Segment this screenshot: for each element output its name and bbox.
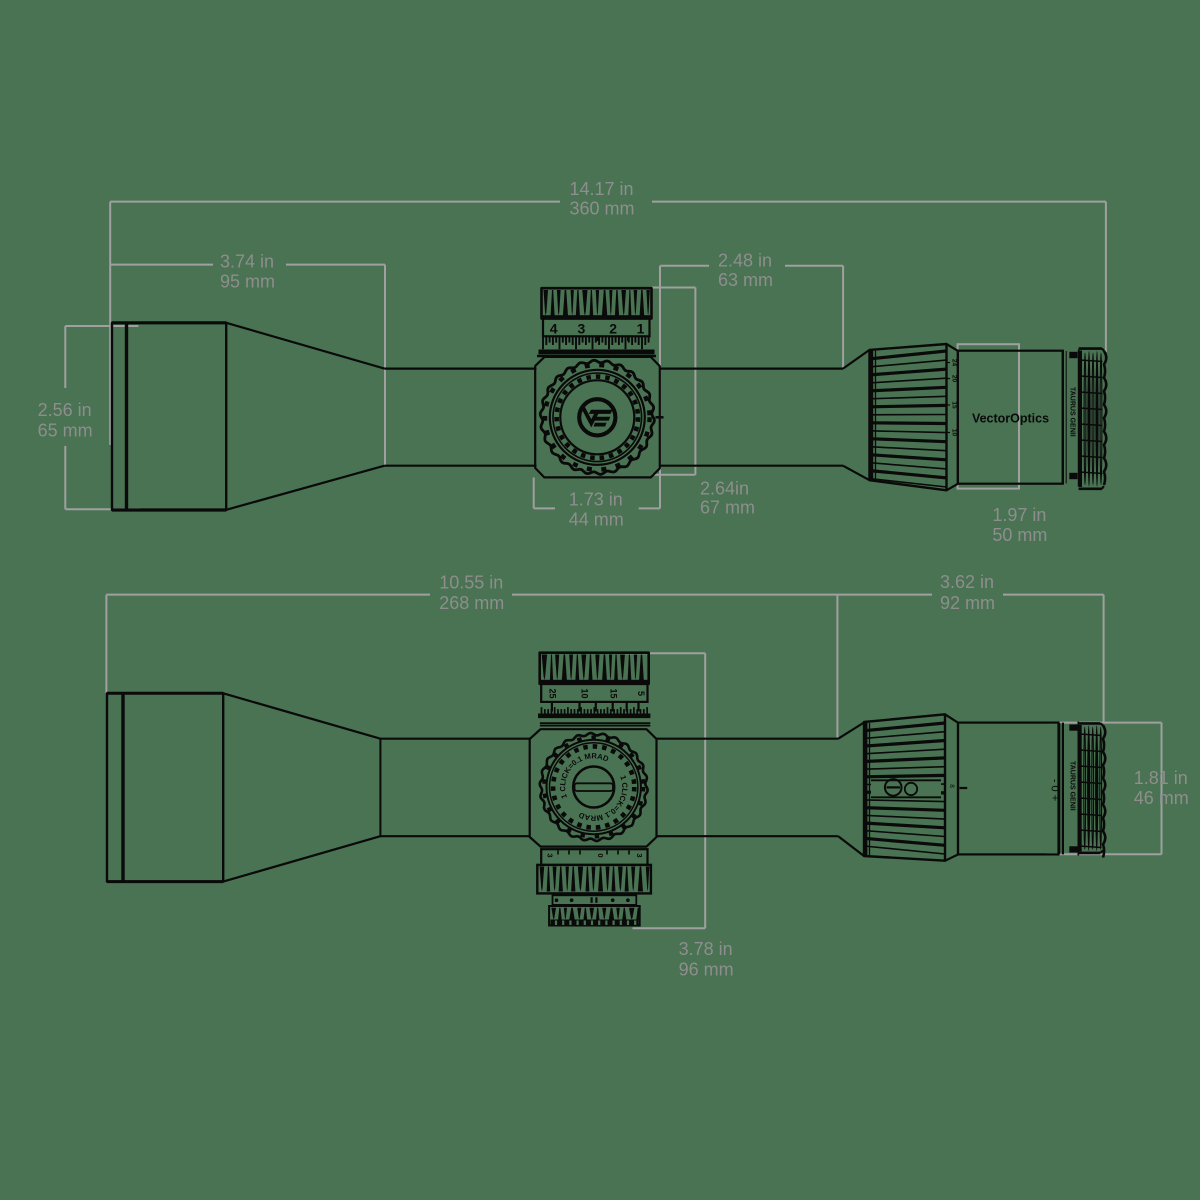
svg-text:TAURUS GENII: TAURUS GENII xyxy=(1069,387,1076,437)
svg-text:2.48 in: 2.48 in xyxy=(718,251,772,271)
svg-text:67 mm: 67 mm xyxy=(700,498,755,518)
svg-text:TAURUS GENII: TAURUS GENII xyxy=(1069,761,1076,811)
svg-text:10: 10 xyxy=(580,688,590,698)
svg-text:92 mm: 92 mm xyxy=(940,593,995,613)
svg-text:15: 15 xyxy=(951,401,958,409)
svg-text:3: 3 xyxy=(635,853,644,857)
svg-text:10: 10 xyxy=(951,429,958,437)
svg-text:2: 2 xyxy=(609,321,617,337)
svg-text:8: 8 xyxy=(948,784,955,788)
svg-text:1.97 in: 1.97 in xyxy=(992,505,1046,525)
svg-text:2.56 in: 2.56 in xyxy=(38,400,92,420)
svg-text:1: 1 xyxy=(637,321,645,337)
svg-text:3.74 in: 3.74 in xyxy=(220,252,274,272)
svg-text:0: 0 xyxy=(596,853,605,857)
svg-text:25: 25 xyxy=(548,688,558,698)
svg-text:1.73 in: 1.73 in xyxy=(569,490,623,510)
svg-text:3: 3 xyxy=(546,853,555,857)
svg-text:268 mm: 268 mm xyxy=(439,593,504,613)
svg-text:10.55 in: 10.55 in xyxy=(439,573,503,593)
svg-text:50 mm: 50 mm xyxy=(992,525,1047,545)
svg-text:46 mm: 46 mm xyxy=(1134,788,1189,808)
svg-text:4: 4 xyxy=(550,321,558,337)
svg-text:360 mm: 360 mm xyxy=(570,198,635,218)
svg-text:3: 3 xyxy=(578,321,586,337)
svg-text:95 mm: 95 mm xyxy=(220,271,275,291)
svg-text:3.62 in: 3.62 in xyxy=(940,572,994,592)
svg-text:14.17 in: 14.17 in xyxy=(570,179,634,199)
svg-text:5: 5 xyxy=(636,691,646,696)
svg-text:2.64in: 2.64in xyxy=(700,479,749,499)
svg-text:- 0 +: - 0 + xyxy=(1049,779,1061,801)
svg-text:63 mm: 63 mm xyxy=(718,270,773,290)
svg-text:15: 15 xyxy=(609,688,619,698)
svg-text:VectorOptics: VectorOptics xyxy=(972,411,1049,425)
svg-text:20: 20 xyxy=(951,375,958,383)
svg-text:96 mm: 96 mm xyxy=(679,959,734,979)
svg-text:24: 24 xyxy=(951,359,958,367)
svg-text:44 mm: 44 mm xyxy=(569,509,624,529)
svg-text:65 mm: 65 mm xyxy=(38,421,93,441)
svg-text:3.78 in: 3.78 in xyxy=(679,939,733,959)
svg-text:1.81 in: 1.81 in xyxy=(1134,768,1188,788)
